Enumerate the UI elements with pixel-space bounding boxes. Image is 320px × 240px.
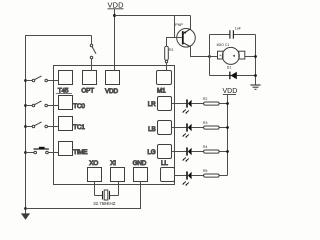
svg-text:D1: D1 [227,66,232,70]
wire motor loop top-left segment [210,34,230,36]
pin GND [133,160,148,182]
switch S4 (TC1) [26,122,59,128]
svg-text:R4: R4 [203,145,207,149]
resistor R1 (base to M1) [165,46,174,60]
node rail row1 [226,102,229,105]
pin XO [88,160,102,182]
pin LL [161,160,175,182]
svg-text:XO: XO [89,160,98,167]
svg-text:LR: LR [148,101,156,108]
LED D4 [182,147,191,161]
wire emitter drop [190,16,192,30]
LED row 3 : wire from LG [172,151,187,153]
wire R4 to rail [219,151,227,153]
node rail row3 [226,150,229,153]
node motor right junction [254,55,257,58]
LED D3 [182,123,191,137]
wire motor loop top-right segment [234,34,256,36]
node loop bottom-right junction [254,74,257,77]
wire motor loop right edge down to ground [255,35,257,85]
svg-text:GND: GND [133,160,147,167]
pin M1 [157,71,172,95]
diode D1 (flyback) [227,66,237,80]
wire collector drop [191,47,210,57]
node rail row3 [24,125,27,128]
pin TIME [59,142,88,157]
wire LED to R3 [192,127,204,129]
pin T45 [56,71,73,95]
LED D2 [182,99,191,113]
node rail row2 [24,104,27,107]
power net VDD (top) [108,1,124,10]
capacitor C1 1uF [230,27,242,39]
svg-text:R2: R2 [203,97,207,101]
resistor R5 [203,169,219,177]
switch S1 (OPT) [90,36,96,71]
LED D5 [182,171,191,185]
pin VDD [105,71,120,95]
svg-text:XI: XI [110,160,116,167]
ground arrow (left rail) [21,213,30,219]
svg-text:PNP: PNP [175,22,183,27]
node VDD junction [113,14,116,17]
node rail row4 [24,151,27,154]
svg-text:OPT: OPT [81,88,94,95]
svg-text:VDD: VDD [108,1,124,10]
wire motor loop bottom edge [210,75,256,77]
resistor R4 [203,145,219,153]
wire base branch from VDD run [174,16,176,38]
resistor R3 [203,121,219,129]
wire LED to R5 [192,175,204,177]
wire LED to R2 [192,103,204,105]
svg-text:M2O C1: M2O C1 [217,43,230,47]
wire VDD stem to VDD pin [114,9,116,71]
svg-text:LG: LG [147,149,155,156]
motor M2 [210,43,256,64]
transistor Q1 PNP [175,22,195,47]
pin TC0 [59,96,86,111]
wire base wire [167,38,183,47]
wire LED to R4 [192,151,204,153]
pin LR [148,97,172,111]
wire GND return [26,182,141,209]
pin XI [110,160,124,182]
LED row 1 : wire from LR [172,103,187,105]
power net VDD (LED rail) [223,88,238,176]
svg-text:R5: R5 [203,169,207,173]
IC U1 outline [54,66,175,185]
wire motor loop left edge [209,35,211,76]
svg-text:32.768KHZ: 32.768KHZ [93,201,116,206]
pushbutton S5 (TIME) [26,147,59,154]
wire R3 to rail [219,127,227,129]
LED row 2 : wire from LB [172,127,187,129]
svg-text:TC0: TC0 [73,103,85,110]
switch S3 (TC0) [26,101,59,107]
pin LB [148,121,171,135]
pin OPT [81,71,96,95]
node rail row2 [226,126,229,129]
ground (motor) [250,85,260,89]
svg-text:LL: LL [161,160,168,167]
wire left rail [26,36,92,214]
svg-text:TC1: TC1 [73,124,85,131]
resistor R2 [203,97,219,105]
node rail gnd return [24,207,27,210]
wire R5 to rail corner [219,175,227,177]
crystal Y1 [93,182,118,207]
svg-text:R3: R3 [203,121,207,125]
pin TC1 [59,117,86,132]
node collector junction on motor loop [208,55,211,58]
pin circle M1 [165,60,167,62]
svg-text:R1: R1 [169,48,174,52]
node rail row1 [24,79,27,82]
svg-text:1uF: 1uF [235,27,242,31]
svg-text:LB: LB [148,126,155,133]
svg-text:VDD: VDD [105,88,118,95]
svg-text:M1: M1 [157,88,166,95]
wire resistor to M1 pin [166,63,168,71]
LED row 4 : wire from LL [175,175,187,177]
pin LG [147,145,171,159]
wire top VDD run [115,15,191,17]
svg-text:VDD: VDD [223,88,238,95]
svg-text:TIME: TIME [73,149,87,156]
wire R2 to rail [219,103,227,105]
switch S2 (T45) [26,76,59,82]
